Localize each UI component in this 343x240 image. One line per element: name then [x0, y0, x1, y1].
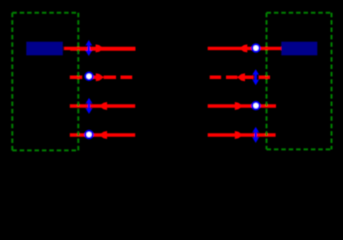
arrowhead R4 right-pointing: [235, 131, 243, 139]
arrowhead R3 right-pointing: [235, 102, 243, 110]
arrowhead L1 right-pointing: [96, 44, 104, 52]
wire R2: right dashed photon line: [210, 76, 271, 80]
polarization double-arrow R2: [252, 69, 259, 85]
dashed station box right: [267, 13, 332, 150]
arrowhead L3 left-pointing: [99, 102, 107, 110]
wire R3: [208, 104, 276, 108]
polarization double-arrow R4: [252, 127, 259, 143]
polarization dot L2 (circle marker): [85, 73, 92, 80]
arrowhead R1 left-pointing: [239, 44, 247, 52]
dashed station box left: [12, 13, 78, 151]
polarization dot R1 (circle marker): [252, 44, 259, 51]
wire L1b: overlapping photon line: [70, 47, 135, 50]
polarization dot L4 (circle marker): [85, 131, 92, 138]
arrowhead L4 left-pointing: [99, 131, 107, 139]
wire R4: [208, 133, 276, 137]
wire L2: left dashed photon line: [70, 76, 132, 80]
arrowhead R2 left-pointing: [237, 73, 245, 81]
wire L3: [70, 104, 135, 108]
arrowhead L2 right-pointing: [96, 73, 104, 81]
detector block right: [281, 42, 317, 56]
polarization double-arrow L3: [86, 98, 93, 114]
wire R1: right station outgoing photon line: [208, 47, 282, 50]
polarization dot R3 (circle marker): [252, 102, 259, 109]
detector block left: [26, 42, 63, 56]
polarization double-arrow L1: [86, 40, 93, 56]
wire L4: [70, 133, 135, 137]
wire L1: left station outgoing photon line: [64, 47, 135, 50]
